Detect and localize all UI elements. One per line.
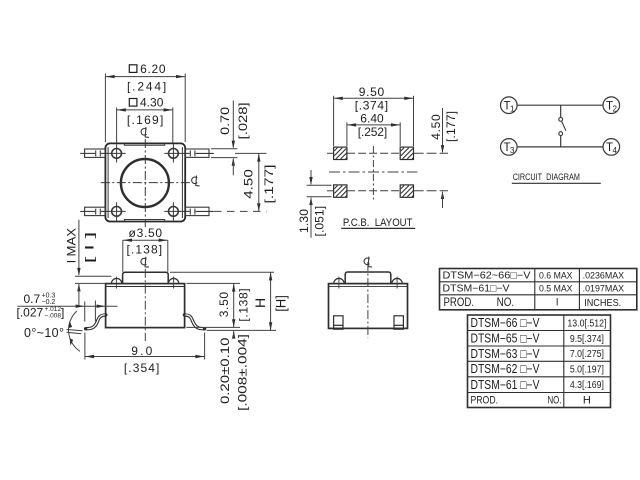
wire switch lower bbox=[560, 136, 562, 147]
dimension l MAX lines bbox=[75, 220, 111, 307]
front view lead tab left bbox=[334, 316, 343, 329]
lead top-left bbox=[80, 149, 108, 157]
svg-text:7.0[.275]: 7.0[.275] bbox=[570, 349, 604, 360]
dimension ø3.50 line bbox=[123, 239, 168, 272]
wire T3-T4 bbox=[517, 146, 603, 148]
top view horizontal centerline bbox=[101, 182, 192, 184]
contact pin top-right bbox=[164, 144, 182, 162]
front view lead tab right bbox=[394, 316, 403, 329]
lead top-right bbox=[183, 149, 214, 157]
svg-text:−.008: −.008 bbox=[45, 313, 62, 320]
dimension 6.20 line bbox=[105, 76, 185, 78]
dimension 4.50 (lead row pitch, right of top view) bbox=[214, 153, 267, 211]
svg-text:[.008±.004]: [.008±.004] bbox=[236, 334, 250, 411]
svg-text:INCHES.: INCHES. bbox=[584, 297, 621, 309]
svg-text:NO.: NO. bbox=[497, 297, 514, 309]
dimension 1.30 extension lines bbox=[307, 184, 332, 186]
svg-text:0.20±0.10: 0.20±0.10 bbox=[218, 337, 232, 404]
dimension 4.50 line (pcb) bbox=[442, 108, 444, 152]
pcb bottom row centerline bbox=[327, 190, 333, 192]
svg-text:5.0[.197]: 5.0[.197] bbox=[570, 365, 604, 376]
front view vertical centerline bbox=[367, 262, 369, 338]
svg-text:6.20: 6.20 bbox=[140, 62, 166, 76]
svg-text:13.0[.512]: 13.0[.512] bbox=[567, 318, 606, 329]
side view stem bbox=[123, 272, 169, 283]
svg-text:[ l ]: [ l ] bbox=[83, 232, 97, 264]
svg-text:[.177]: [.177] bbox=[262, 165, 276, 204]
svg-text:[.169]: [.169] bbox=[127, 113, 164, 127]
dimension 4.30 line bbox=[117, 109, 173, 111]
pcb pad bottom-left bbox=[334, 185, 347, 197]
svg-text:4.30: 4.30 bbox=[140, 96, 164, 110]
dimension 9.50 extension lines bbox=[333, 96, 335, 146]
extension line feet bottom right bbox=[207, 329, 276, 331]
front view stem bbox=[345, 272, 391, 284]
dimension 0.20 arrow below bbox=[232, 331, 235, 339]
terminal T4 bbox=[603, 139, 620, 156]
switch contact upper bbox=[559, 118, 563, 122]
dimension 9.0 extension lines bbox=[84, 333, 86, 360]
front view bump centerline left bbox=[338, 277, 340, 289]
top view body inner edge left bbox=[107, 147, 109, 218]
angle arc bbox=[69, 311, 80, 351]
circuit diagram underline bbox=[512, 182, 601, 184]
wire switch upper bbox=[560, 105, 562, 117]
front view bump centerline right bbox=[396, 277, 398, 289]
pcb vertical centerline bbox=[372, 146, 374, 200]
angle arc arrowheads bbox=[69, 321, 73, 328]
svg-text:PROD.: PROD. bbox=[444, 297, 475, 309]
svg-text:2: 2 bbox=[613, 105, 618, 114]
svg-text:[.138]: [.138] bbox=[236, 288, 250, 321]
svg-text:9.5[.374]: 9.5[.374] bbox=[570, 334, 604, 345]
lead bottom-left bbox=[80, 207, 108, 215]
top view body inner edge right bbox=[181, 147, 183, 218]
terminal T2 bbox=[603, 97, 620, 114]
svg-text:[.028]: [.028] bbox=[236, 102, 250, 139]
top view vertical centerline bbox=[144, 139, 146, 227]
side view body top band bbox=[106, 286, 185, 288]
top view body top recess bbox=[124, 144, 164, 146]
extension line body top right bbox=[186, 282, 240, 284]
svg-text:[.138]: [.138] bbox=[127, 242, 163, 256]
side view vertical centerline bbox=[144, 269, 146, 341]
svg-text:0.5 MAX: 0.5 MAX bbox=[539, 284, 573, 295]
stem circle (plunger) bbox=[121, 159, 169, 207]
centerline symbol above top view bbox=[141, 127, 149, 137]
svg-text:DTSM−63 □−V: DTSM−63 □−V bbox=[471, 347, 541, 361]
side view lead right bbox=[184, 315, 203, 329]
top view body bottom recess bbox=[124, 220, 164, 222]
svg-text:l MAX: l MAX bbox=[65, 228, 79, 263]
contact pin bottom-left bbox=[108, 202, 126, 220]
contact pin top-left bbox=[108, 144, 126, 162]
svg-text:4.3[.169]: 4.3[.169] bbox=[570, 380, 604, 391]
side view lead left foot tip bbox=[84, 327, 87, 330]
table2 frame bbox=[468, 315, 611, 408]
svg-text:0.70: 0.70 bbox=[218, 107, 232, 135]
svg-text:DTSM−65 □−V: DTSM−65 □−V bbox=[471, 332, 541, 346]
front view dome bump right bbox=[392, 278, 402, 283]
top view body outline bbox=[105, 143, 185, 221]
switch contact lower bbox=[559, 132, 563, 136]
pcb pad bottom-right bbox=[400, 185, 413, 197]
extension line body bottom right bbox=[186, 326, 240, 328]
svg-text:NO.: NO. bbox=[548, 395, 562, 407]
centerline symbol above side view bbox=[141, 257, 149, 267]
dimension 9.0 line bbox=[85, 356, 205, 358]
svg-text:[H]: [H] bbox=[274, 295, 289, 312]
svg-text:[.051]: [.051] bbox=[312, 206, 326, 237]
svg-text:.0197MAX: .0197MAX bbox=[583, 284, 625, 295]
svg-text:6.40: 6.40 bbox=[360, 111, 384, 125]
label square 6.20 bbox=[129, 65, 137, 73]
svg-text:[.252]: [.252] bbox=[358, 125, 387, 139]
side view lead right foot tip bbox=[203, 327, 206, 330]
dimension 0.7 extension lines bbox=[84, 302, 86, 322]
side view bump centerline left bbox=[115, 277, 117, 289]
svg-text:0°~10°: 0°~10° bbox=[24, 326, 64, 340]
svg-text:.0236MAX: .0236MAX bbox=[583, 271, 625, 282]
svg-text:]: ] bbox=[61, 305, 64, 319]
svg-text:3: 3 bbox=[510, 146, 515, 155]
svg-text:[.374]: [.374] bbox=[355, 99, 388, 113]
centerline symbol right of top view bbox=[192, 176, 200, 186]
svg-text:ø3.50: ø3.50 bbox=[129, 226, 163, 240]
dimension 6.40 line bbox=[347, 124, 400, 126]
dimension 6.20 extension lines bbox=[104, 74, 106, 143]
terminal T3 bbox=[501, 139, 518, 156]
svg-text:[.027: [.027 bbox=[17, 305, 44, 319]
table1 frame bbox=[440, 269, 637, 310]
svg-text:DTSM−62~66□−V: DTSM−62~66□−V bbox=[443, 271, 531, 282]
contact pin bottom-right bbox=[164, 202, 182, 220]
side view dome bump left bbox=[111, 278, 121, 283]
front view body top band bbox=[329, 286, 408, 288]
svg-text:P.C.B. LAYOUT: P.C.B. LAYOUT bbox=[343, 217, 413, 229]
dimension 0.70 (lead thickness, right of top view) bbox=[211, 101, 237, 176]
svg-text:DTSM−61□−V: DTSM−61□−V bbox=[443, 284, 510, 295]
svg-text:H: H bbox=[583, 395, 591, 407]
svg-text:[.244]: [.244] bbox=[127, 79, 166, 93]
extension line stem top bbox=[170, 271, 274, 273]
lead bottom-right bbox=[183, 207, 214, 215]
svg-text:0.6 MAX: 0.6 MAX bbox=[539, 271, 573, 282]
svg-text:CIRCUIT DIAGRAM: CIRCUIT DIAGRAM bbox=[513, 172, 580, 183]
pcb horizontal centerline bbox=[329, 171, 417, 173]
pcb layout underline bbox=[341, 227, 415, 229]
svg-text:3.50: 3.50 bbox=[217, 292, 231, 318]
dimension 3.50 line bbox=[233, 283, 235, 327]
label square 4.30 bbox=[129, 99, 137, 107]
svg-text:[.177]: [.177] bbox=[444, 111, 458, 142]
pcb pad top-right bbox=[400, 147, 413, 159]
dimension 6.40 extension lines bbox=[346, 122, 348, 146]
centerline symbol above front view bbox=[364, 257, 372, 267]
dimension H line bbox=[270, 272, 272, 330]
terminal T1 bbox=[501, 97, 518, 114]
side view body bbox=[106, 284, 185, 328]
svg-text:4.50: 4.50 bbox=[241, 169, 255, 199]
svg-text:0.7: 0.7 bbox=[24, 292, 41, 306]
side view lead left bbox=[86, 315, 105, 329]
svg-text:−0.2: −0.2 bbox=[42, 299, 56, 306]
wire T1-T2 bbox=[517, 104, 603, 106]
svg-text:l: l bbox=[556, 297, 558, 309]
svg-text:DTSM−66 □−V: DTSM−66 □−V bbox=[471, 316, 541, 330]
svg-text:4: 4 bbox=[613, 146, 618, 155]
dimension 4.30 extension lines bbox=[116, 108, 118, 144]
svg-text:H: H bbox=[252, 298, 268, 308]
svg-text:DTSM−61 □−V: DTSM−61 □−V bbox=[471, 378, 541, 392]
front view dome bump left bbox=[334, 278, 344, 283]
svg-text:DTSM−62 □−V: DTSM−62 □−V bbox=[471, 362, 541, 376]
svg-text:9.50: 9.50 bbox=[359, 85, 385, 99]
dimension 1.30 line bbox=[310, 170, 312, 184]
svg-text:9.0: 9.0 bbox=[131, 344, 152, 358]
svg-text:4.50: 4.50 bbox=[429, 114, 443, 140]
pcb pad top-left bbox=[334, 147, 347, 159]
pcb top row centerline bbox=[327, 152, 333, 154]
switch arm bbox=[562, 122, 566, 131]
angle leader lines bbox=[67, 311, 83, 351]
dimension 9.50 line bbox=[334, 97, 414, 99]
svg-text:1.30: 1.30 bbox=[297, 209, 311, 233]
side view dome bump right bbox=[168, 278, 178, 283]
side view bump centerline right bbox=[173, 277, 175, 289]
svg-text:[.354]: [.354] bbox=[124, 361, 160, 375]
front view body bbox=[329, 284, 408, 329]
dimension 0.7 line bbox=[18, 305, 118, 307]
svg-text:1: 1 bbox=[510, 105, 515, 114]
svg-text:PROD.: PROD. bbox=[471, 395, 499, 407]
